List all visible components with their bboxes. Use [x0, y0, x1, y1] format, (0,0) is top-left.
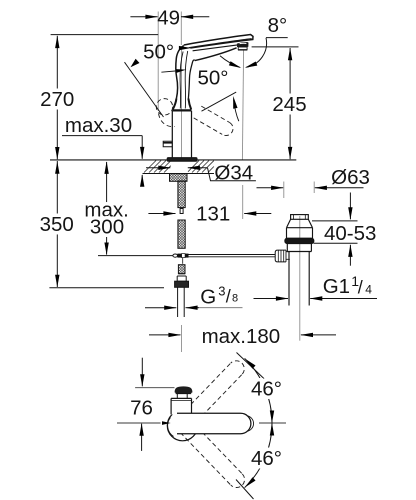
svg-text:49: 49 — [157, 7, 180, 30]
svg-text:50°: 50° — [197, 67, 228, 90]
svg-text:46°: 46° — [251, 447, 282, 470]
svg-text:300: 300 — [90, 216, 124, 239]
svg-text:46°: 46° — [251, 377, 282, 400]
svg-text:G: G — [200, 285, 216, 308]
svg-text:270: 270 — [40, 88, 74, 111]
svg-text:Ø34: Ø34 — [214, 161, 253, 184]
svg-text:76: 76 — [130, 396, 153, 419]
svg-text:max.180: max.180 — [202, 325, 281, 348]
svg-text:131: 131 — [196, 203, 230, 226]
svg-text:8: 8 — [232, 293, 238, 305]
svg-text:/: / — [358, 277, 363, 297]
svg-text:350: 350 — [40, 213, 74, 236]
svg-text:G1: G1 — [323, 275, 350, 298]
svg-text:/: / — [226, 287, 231, 307]
svg-text:4: 4 — [365, 282, 372, 296]
svg-text:8°: 8° — [268, 14, 288, 37]
svg-text:Ø63: Ø63 — [331, 166, 370, 189]
svg-text:40-53: 40-53 — [324, 222, 376, 245]
svg-text:50°: 50° — [143, 40, 174, 63]
svg-text:max.30: max.30 — [65, 114, 132, 137]
svg-text:3: 3 — [218, 283, 225, 298]
svg-text:245: 245 — [272, 93, 306, 116]
